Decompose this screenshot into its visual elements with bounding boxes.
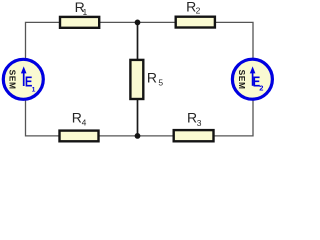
svg-text:R: R bbox=[72, 110, 82, 126]
svg-text:4: 4 bbox=[82, 118, 87, 128]
svg-text:SEM: SEM bbox=[8, 70, 18, 90]
svg-text:R: R bbox=[147, 70, 157, 86]
svg-text:2: 2 bbox=[259, 84, 263, 93]
svg-text:R: R bbox=[187, 109, 197, 125]
svg-text:2: 2 bbox=[196, 6, 201, 16]
svg-text:SEM: SEM bbox=[237, 70, 247, 90]
svg-text:5: 5 bbox=[158, 78, 163, 88]
svg-text:1: 1 bbox=[32, 86, 36, 93]
svg-text:1: 1 bbox=[83, 7, 88, 17]
svg-text:3: 3 bbox=[197, 118, 202, 128]
